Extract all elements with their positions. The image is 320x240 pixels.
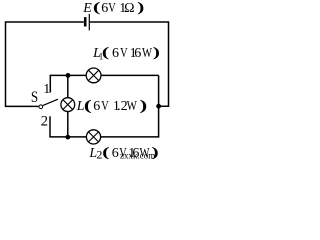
svg-text:V: V	[120, 44, 128, 60]
svg-text:): )	[153, 44, 160, 60]
svg-text:): )	[137, 0, 144, 15]
svg-text:Ω: Ω	[124, 1, 134, 16]
svg-text:6: 6	[134, 46, 141, 61]
svg-text:zxxk.com: zxxk.com	[120, 151, 155, 160]
svg-text:): )	[140, 98, 148, 114]
svg-text:6: 6	[101, 1, 108, 16]
svg-text:(: (	[102, 45, 109, 61]
svg-text:V: V	[108, 0, 116, 15]
svg-text:E: E	[82, 1, 92, 16]
svg-text:S: S	[31, 89, 38, 106]
svg-text:(: (	[93, 0, 100, 15]
svg-text:V: V	[101, 97, 109, 113]
svg-text:W: W	[142, 45, 152, 61]
svg-text:6: 6	[112, 46, 119, 61]
svg-text:6: 6	[112, 146, 119, 159]
svg-text:(: (	[84, 97, 92, 113]
svg-text:(: (	[102, 145, 109, 159]
svg-text:2: 2	[41, 114, 48, 130]
svg-text:6: 6	[93, 99, 100, 114]
svg-text:W: W	[127, 98, 137, 114]
svg-text:1: 1	[43, 82, 50, 97]
